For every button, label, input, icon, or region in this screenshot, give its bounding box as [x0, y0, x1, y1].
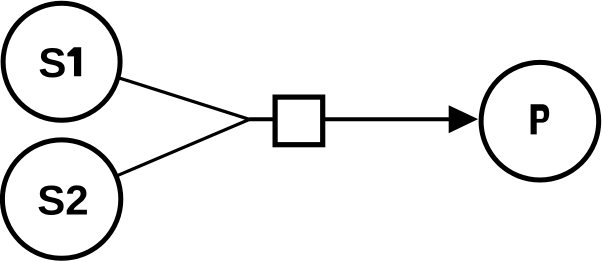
wire junction to transition and transition to arrowhead: [249, 117, 451, 121]
place P: [481, 62, 599, 180]
place S1: [3, 3, 120, 120]
svg-text:S2: S2: [37, 177, 88, 224]
place S2: [2, 140, 120, 258]
wire from S1 to junction: [62, 60, 250, 120]
svg-text:S: S: [38, 39, 66, 86]
wire from S2 to junction: [62, 120, 250, 200]
transition square T1: [275, 97, 323, 145]
arrowhead into P: [449, 105, 478, 133]
